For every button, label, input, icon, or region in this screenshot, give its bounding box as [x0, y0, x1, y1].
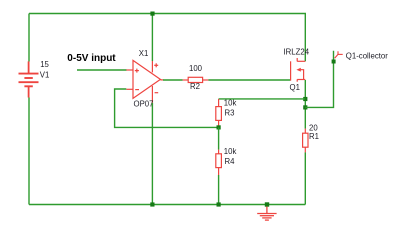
wire R1 bottom to rail: [304, 152, 306, 204]
op-amp X1: [126, 60, 163, 102]
battery V1: [19, 61, 39, 97]
node bottom rail junction 2: [217, 202, 221, 206]
wire R2 to gate: [208, 79, 290, 81]
svg-text:R4: R4: [225, 157, 236, 166]
resistor R2: [183, 77, 209, 82]
wire left rail bottom: [28, 98, 30, 205]
svg-text:R1: R1: [309, 132, 319, 141]
svg-text:R3: R3: [225, 109, 235, 118]
resistor R4: [216, 150, 222, 175]
wire R3 R4 junction: [218, 127, 220, 149]
svg-text:Q1-collector: Q1-collector: [346, 52, 388, 61]
wire left rail top: [28, 14, 30, 62]
svg-text:R2: R2: [190, 82, 200, 91]
node probe tap junction: [303, 105, 307, 109]
wire opamp V- to ground rail: [151, 103, 153, 205]
node bottom rail junction 1: [150, 202, 154, 206]
svg-text:100: 100: [189, 64, 203, 73]
svg-text:15: 15: [40, 60, 49, 69]
svg-text:Q1: Q1: [290, 83, 300, 92]
node ground junction: [265, 202, 269, 206]
probe Q1-collector: [335, 51, 343, 58]
resistor R3: [216, 99, 222, 128]
wire opamp V+ supply: [151, 14, 153, 62]
svg-text:X1: X1: [139, 49, 149, 58]
svg-text:OP07: OP07: [134, 100, 154, 109]
node probe dot: [332, 60, 336, 64]
wire probe tap: [305, 51, 333, 108]
wire R4 bottom to rail: [218, 175, 220, 205]
wire feedback from inverting input: [115, 89, 219, 127]
wire top rail: [29, 14, 305, 62]
svg-text:10k: 10k: [224, 147, 237, 156]
wire source node to R3 top: [219, 98, 306, 100]
wire bottom rail: [29, 204, 305, 206]
ground: [257, 207, 276, 221]
svg-text:IRLZ24: IRLZ24: [284, 48, 310, 57]
svg-text:0-5V input: 0-5V input: [67, 53, 116, 64]
wire opamp output: [163, 79, 183, 81]
resistor R1: [303, 129, 308, 153]
svg-text:V1: V1: [40, 70, 50, 79]
wire 0-5V input: [77, 69, 127, 71]
wire Q1 source down through R1 top: [304, 80, 306, 129]
transistor Q1: [291, 58, 306, 82]
node feedback junction: [217, 125, 221, 129]
node top rail junction: [150, 12, 154, 16]
node R3 tap junction: [303, 97, 307, 101]
svg-text:10k: 10k: [224, 99, 237, 108]
